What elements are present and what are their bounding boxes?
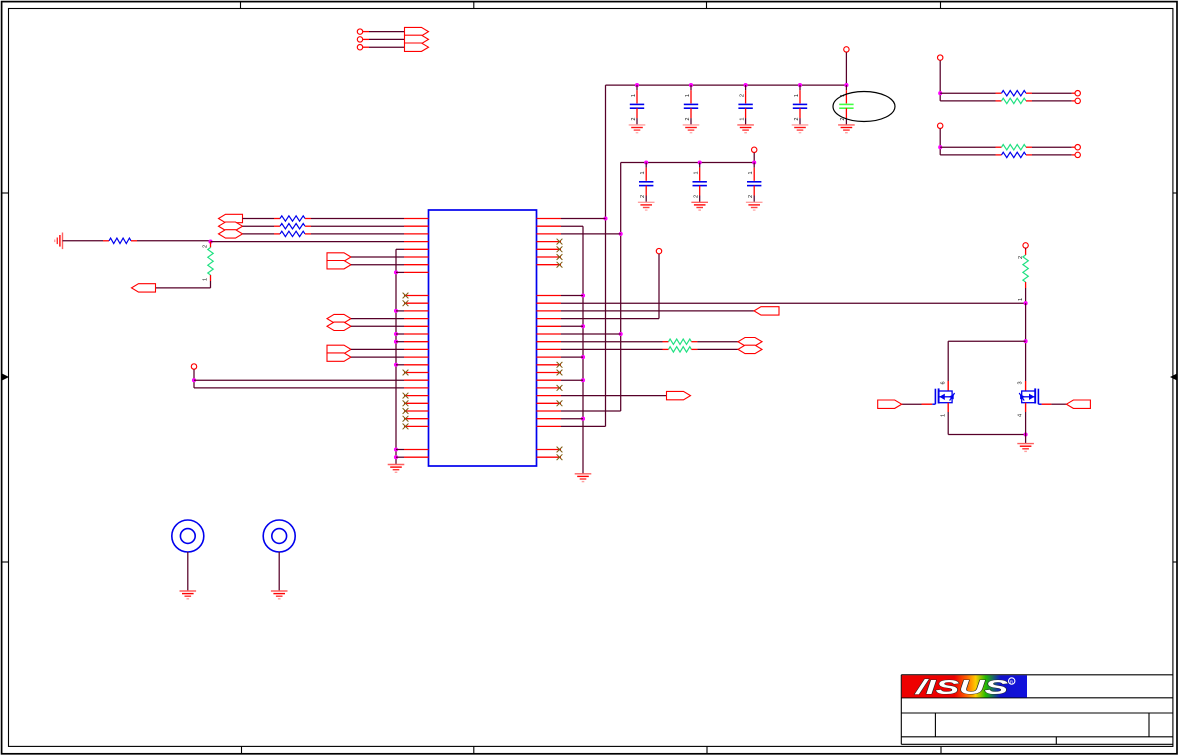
wire source rail — [948, 434, 1025, 436]
wire MH2 to ground — [278, 552, 280, 591]
wire IC pin k4 to bus corner — [396, 248, 404, 250]
wire Q2 source down — [1025, 412, 1027, 435]
pin label 2 — [203, 245, 209, 248]
ground MH2 — [271, 591, 288, 599]
svg-text:4: 4 — [1017, 414, 1023, 417]
junction left bus row 30 — [394, 447, 398, 451]
wire IC pin 18 to V583 — [561, 356, 583, 358]
border zone ticks top — [241, 2, 941, 9]
svg-text:/ISUS: /ISUS — [914, 677, 1009, 699]
ground MOSFET — [1017, 444, 1034, 452]
junction cap bus 2 #1 — [644, 160, 648, 164]
wire bus to IC pin 19 — [396, 364, 404, 366]
junction left bus row 16 — [394, 340, 398, 344]
wire IC k0 to V605 — [561, 218, 606, 220]
ground left bus — [388, 465, 405, 473]
junction cap bus 1 #1 — [635, 83, 639, 87]
junction left bus row 19 — [394, 363, 398, 367]
wire F8 to IC — [351, 256, 404, 258]
svg-text:1: 1 — [631, 94, 637, 97]
wire P2 to bus — [753, 153, 755, 163]
svg-text:1: 1 — [685, 94, 691, 97]
wire long net row11 — [561, 302, 1026, 304]
wire R12 lower lead — [1025, 282, 1027, 303]
wire IC pin 10 to V583 — [561, 295, 583, 297]
wire IC k2 to V620 — [561, 233, 621, 235]
port flag F11 — [327, 322, 351, 330]
wire IC pin 17 to R11 — [561, 348, 669, 350]
svg-text:2: 2 — [794, 117, 800, 120]
junction drain node — [1024, 339, 1028, 343]
svg-text:1: 1 — [739, 117, 745, 120]
resistor R8 — [280, 224, 305, 229]
IC U1 left pins — [403, 219, 429, 458]
port flag F15 — [738, 338, 762, 346]
port flag F8 — [327, 253, 351, 261]
port flag F16 — [738, 345, 762, 353]
junction cap bus 1 #2 — [689, 83, 693, 87]
terminal P2 top — [752, 147, 757, 152]
wire V605 vertical — [605, 85, 607, 426]
highlight ellipse — [833, 92, 895, 122]
resistor R9 — [280, 231, 305, 236]
wire F5 to R7 — [243, 218, 281, 220]
wire IC k15 to V620 — [561, 333, 621, 335]
svg-text:3: 3 — [1017, 381, 1023, 384]
capacitor C7 — [691, 163, 708, 211]
port flag F10 — [327, 314, 351, 322]
junction cap bus 2 #2 — [698, 160, 702, 164]
junction V583 row 18 — [581, 355, 585, 359]
wire P3 row b — [194, 387, 404, 389]
wire F7 to R9 — [243, 233, 281, 235]
port flag F1 — [405, 27, 429, 35]
wire F6 to R8 — [243, 225, 281, 227]
border center arrow right — [1170, 374, 1177, 381]
IC U1 — [429, 210, 537, 466]
svg-text:1: 1 — [940, 414, 946, 417]
junction V583 row 26 — [581, 417, 585, 421]
port flag F19 — [1066, 400, 1090, 408]
port flag F3 — [405, 43, 429, 51]
resistor R12 vertical — [1023, 255, 1028, 282]
wire Q2 gate — [1042, 403, 1067, 405]
wire bus to IC pin 7 — [396, 271, 404, 273]
wire Q1 drain to node — [948, 340, 1025, 342]
wire R10 to flag — [691, 341, 738, 343]
wire bus to IC pin 31 — [396, 456, 404, 458]
wire R5 to junction — [131, 240, 211, 242]
terminal P4 — [656, 248, 661, 253]
junction V605 row0 — [603, 216, 607, 220]
wire IC pin 14 to V583 — [561, 325, 583, 327]
wire P4 down — [658, 254, 660, 319]
wire bus to IC pin 16 — [396, 341, 404, 343]
wire R11 to flag — [691, 348, 738, 350]
svg-text:1: 1 — [1018, 298, 1024, 301]
wire junction to IC pin — [211, 241, 405, 243]
border center arrow left — [2, 374, 9, 381]
wire V620 corner to IC pin k25 — [561, 410, 621, 412]
junction V583 row 21 — [581, 378, 585, 382]
wire left bus vertical — [395, 249, 397, 464]
wire T1 to flag — [369, 31, 405, 33]
svg-text:2: 2 — [694, 195, 700, 198]
wire Q1 source down — [947, 412, 949, 435]
junction V583 row 10 — [581, 293, 585, 297]
port flag F2 — [405, 35, 429, 43]
title block table — [901, 675, 1173, 745]
border zone ticks left — [2, 193, 9, 562]
resistor pair R3 R4 — [938, 123, 1081, 158]
svg-text:1: 1 — [794, 94, 800, 97]
terminal P3 — [191, 364, 196, 369]
svg-text:1: 1 — [694, 171, 700, 174]
svg-text:1: 1 — [203, 278, 209, 281]
wire Q1 gate — [902, 403, 933, 405]
wire F11 to IC — [351, 325, 404, 327]
resistor R10 — [669, 339, 692, 344]
junction V620 row15 — [619, 332, 623, 336]
junction cap bus 1 #4 — [798, 83, 802, 87]
svg-text:2: 2 — [631, 117, 637, 120]
pin label 1 — [1018, 298, 1024, 301]
wire gnd stub — [1025, 435, 1027, 444]
capacitor C8 — [746, 163, 763, 211]
capacitor C5 (highlighted) — [838, 85, 855, 133]
mounting hole MH2 — [263, 520, 295, 552]
wire row12 to flag — [561, 310, 754, 312]
capacitor C4 — [792, 85, 809, 133]
wire P4 corner to IC pin k13 — [561, 318, 659, 320]
junction cap bus 1 #3 — [744, 83, 748, 87]
junction V583 row 14 — [581, 324, 585, 328]
capacitor C2 — [683, 85, 700, 133]
wire cap bus 1 — [606, 84, 847, 86]
wire row23 to flag — [561, 395, 667, 397]
port flag F4 — [132, 284, 156, 292]
mounting hole MH1 — [172, 520, 204, 552]
terminal T3 — [357, 45, 369, 50]
capacitor C3 — [737, 85, 754, 133]
wire V620 vertical — [620, 163, 622, 412]
wire IC k1 corner to V583 — [561, 225, 583, 227]
svg-text:2: 2 — [748, 195, 754, 198]
wire Q1 drain vertical — [947, 341, 949, 381]
wire IC pin 16 to R10 — [561, 341, 669, 343]
wire R9 to IC — [305, 233, 404, 235]
capacitor C6 — [638, 163, 655, 211]
wire F10 to IC — [351, 318, 404, 320]
wire P1 to bus — [845, 52, 847, 85]
ground far left — [55, 233, 63, 250]
terminal T1 — [357, 29, 369, 34]
resistor pair R1 R2 — [938, 55, 1081, 104]
wire V1026 down — [1025, 303, 1027, 381]
ground V583 — [575, 474, 592, 482]
wire T2 to flag — [369, 38, 405, 40]
svg-text:1: 1 — [640, 171, 646, 174]
svg-text:1: 1 — [748, 171, 754, 174]
border zone ticks bottom — [242, 746, 942, 754]
wire R8 to IC — [305, 225, 404, 227]
ground MH1 — [180, 591, 197, 599]
wire bus to IC pin 30 — [396, 449, 404, 451]
junction cap bus 2 right end — [752, 160, 756, 164]
resistor R7 — [280, 216, 305, 221]
svg-text:6: 6 — [940, 381, 946, 384]
junction left bus row 31 — [394, 455, 398, 459]
port flag F12 — [327, 345, 351, 353]
resistor R11 — [669, 347, 692, 352]
junction cap bus 1 right end — [844, 83, 848, 87]
wire cap bus 2 — [621, 162, 755, 164]
port flag F14 — [754, 307, 779, 315]
svg-text:2: 2 — [640, 195, 646, 198]
junction left bus row 7 — [394, 270, 398, 274]
transistor Q2 — [1017, 381, 1041, 417]
wire gnd to R5 — [63, 240, 110, 242]
port flag F17 — [667, 391, 691, 399]
wire F12 to IC — [351, 348, 404, 350]
terminal P5 — [1023, 243, 1028, 248]
junction left bus row 15 — [394, 332, 398, 336]
wire T3 to flag — [369, 46, 405, 48]
port flag F5 — [219, 214, 243, 222]
wire F13 to IC — [351, 356, 404, 358]
pin label 2 — [1018, 256, 1024, 259]
resistor R5 — [109, 238, 131, 243]
junction V620 row2 — [619, 232, 623, 236]
port flag F18 — [878, 400, 902, 408]
wire R6 to port — [156, 281, 211, 288]
capacitor C1 — [629, 85, 646, 133]
port flag F6 — [219, 222, 243, 230]
pin label 1 — [203, 278, 209, 281]
wire P5 to R12 — [1025, 248, 1027, 255]
wire IC pin 26 to V583 — [561, 418, 583, 420]
svg-text:2: 2 — [685, 117, 691, 120]
border zone ticks right — [1173, 193, 1178, 562]
ASUS logo — [902, 675, 1027, 699]
wire bus to IC pin 15 — [396, 333, 404, 335]
terminal T2 — [357, 37, 369, 42]
wire V583 vertical — [582, 226, 584, 473]
terminal P1 top — [844, 47, 849, 52]
IC U1 right pins — [537, 219, 563, 461]
junction source rail — [1024, 432, 1028, 436]
port flag F13 — [327, 353, 351, 361]
junction P3 branch — [192, 378, 196, 382]
wire P3 row a — [194, 379, 404, 381]
junction left bus row 12 — [394, 309, 398, 313]
svg-text:2: 2 — [203, 245, 209, 248]
wire MH1 to ground — [187, 552, 189, 591]
junction node row11 — [1024, 301, 1028, 305]
resistor R6 vertical — [208, 242, 213, 281]
junction R6 top — [208, 240, 212, 244]
transistor Q1 — [932, 381, 954, 417]
wire IC pin 21 to V583 — [561, 379, 583, 381]
wire P3 down — [193, 369, 195, 388]
wire V605 corner to IC pin k27 — [561, 425, 606, 427]
wire R7 to IC — [305, 218, 404, 220]
wire F9 to IC — [351, 264, 404, 266]
port flag F9 — [327, 261, 351, 269]
svg-text:2: 2 — [739, 94, 745, 97]
port flag F7 — [219, 230, 243, 238]
wire bus to IC pin 12 — [396, 310, 404, 312]
